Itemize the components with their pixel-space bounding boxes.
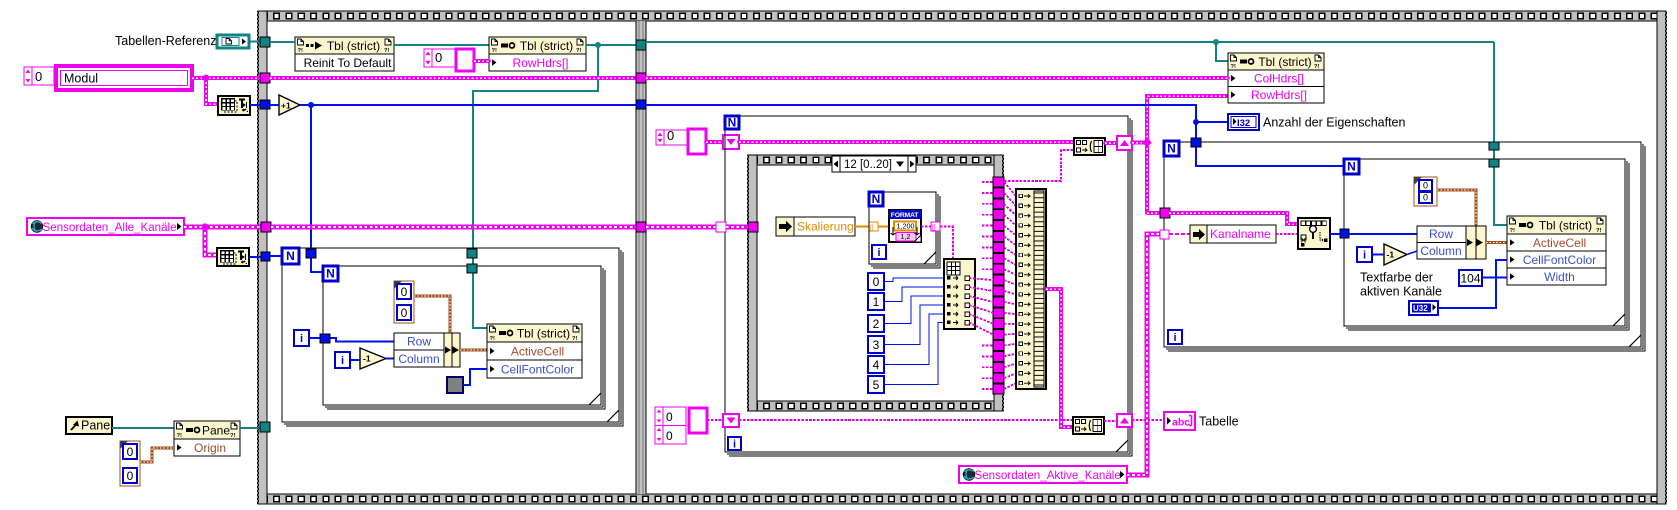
wire wavy bottom shift register across loop (739, 419, 1073, 421)
Pane reference constant (66, 417, 112, 434)
tunnel blue rows count on sequence border (261, 252, 270, 261)
wire braided branch down to subVI B (205, 227, 217, 255)
wire wavy cluster node 2 to shift register right bottom (1104, 420, 1117, 422)
tunnel pink solid on stacked sequence border (748, 222, 758, 232)
svg-text:ActiveCell: ActiveCell (1533, 236, 1586, 250)
svg-text:?!: ?! (572, 336, 578, 342)
shift register right bottom of middle loop (1117, 414, 1132, 427)
color constant U32 (1409, 301, 1438, 315)
wire beads Modul to ColHdrs (646, 76, 1228, 80)
wire brown cluster to bundle top (414, 296, 450, 333)
array to cluster node bottom (1073, 417, 1104, 434)
wire orange inside format loop (878, 225, 889, 227)
indicator I32 Anzahl der Eigenschaften (1228, 114, 1259, 130)
svg-text:0: 0 (35, 69, 42, 84)
wire beads channel to right loop tunnel (1147, 211, 1164, 215)
string array constant for shift register top (656, 128, 687, 145)
svg-text:0: 0 (873, 275, 880, 289)
property node Pane Origin (174, 421, 240, 456)
svg-text:?!: ?! (492, 48, 498, 54)
svg-text:Textfarbe der: Textfarbe der (1360, 271, 1433, 285)
svg-text:N: N (872, 192, 881, 206)
wire wavy to Tabelle indicator (1132, 419, 1164, 421)
iteration i middle loop (728, 437, 741, 451)
wire wavy format output (921, 226, 932, 228)
svg-text:i: i (1173, 332, 1176, 344)
tunnel teal on sequence border (260, 37, 270, 47)
svg-text:Tabellen-Referenz: Tabellen-Referenz (115, 34, 216, 48)
decrement -1 node (360, 348, 386, 369)
tunnel blue on inner loop border (320, 334, 330, 343)
numeric constants 0-5 (868, 273, 884, 393)
svg-text:?!: ?! (177, 433, 183, 439)
svg-text:Sensordaten_Alle_Kanäle: Sensordaten_Alle_Kanäle (43, 221, 177, 234)
svg-text:0: 0 (401, 285, 408, 299)
svg-text:Modul: Modul (64, 72, 98, 86)
svg-text:+1: +1 (281, 101, 291, 111)
tunnel blue on right inner loop border (1340, 229, 1349, 238)
svg-text:0: 0 (666, 429, 673, 443)
wire blue U32 to CellFontColor right (1438, 260, 1507, 308)
shift register left top of middle loop (723, 135, 739, 149)
svg-text:RowHdrs[]: RowHdrs[] (512, 56, 568, 70)
svg-text:U32: U32 (1413, 304, 1428, 313)
search 1D array node (1298, 218, 1330, 249)
for loop frame1 inner (323, 266, 605, 409)
svg-text:?!: ?! (1596, 228, 1602, 234)
loop count N right outer (1164, 141, 1179, 156)
subVI table row index B (217, 248, 249, 266)
iteration i frame1 outer (294, 330, 309, 346)
wire teal refnum to tunnel (249, 41, 260, 43)
wire beads shift register to cluster node across loop (739, 140, 1074, 144)
svg-text:?!: ?! (384, 48, 390, 54)
tunnel teal on right inner loop top (1489, 159, 1499, 167)
for loop frame1 outer (282, 248, 623, 426)
wire beads const to shift register (706, 140, 723, 144)
iteration i right inner (1357, 247, 1372, 262)
svg-text:i: i (877, 247, 880, 259)
empty string constant (456, 49, 474, 71)
svg-text:Row: Row (407, 335, 431, 349)
loop count N frame1 inner (323, 266, 338, 281)
tunnel blue on sequence border for +1 (260, 100, 270, 109)
wire teal Pane const to property node (112, 427, 174, 429)
svg-text:1,200: 1,200 (897, 222, 915, 231)
svg-text:Column: Column (1420, 244, 1461, 258)
svg-text:Tbl (strict): Tbl (strict) (520, 39, 573, 53)
wires wavy stub inputs on other tunnels (982, 181, 993, 183)
svg-text:?!: ?! (490, 336, 496, 342)
tunnel blue on right outer loop border (1191, 138, 1201, 147)
wire wavy first tunnel to cluster node 1 (1004, 150, 1074, 181)
loop count N format loop (869, 192, 883, 206)
svg-text:Reinit To Default: Reinit To Default (304, 56, 392, 70)
wire blue subVI A to tunnel (250, 104, 260, 106)
svg-text:Tabelle: Tabelle (1199, 415, 1239, 429)
svg-text:Row: Row (1429, 227, 1453, 241)
svg-text:N: N (326, 267, 335, 281)
wire beads vertical channel up to RowHdrs (1147, 96, 1228, 213)
svg-text:0: 0 (435, 50, 442, 65)
tunnel pink solid channel names on right loop border (1160, 208, 1170, 218)
wire blue rows count to outer N (270, 255, 282, 257)
sequence frame divider (636, 21, 646, 494)
wires wavy tunnels to build array (1004, 182, 1016, 196)
wire braided inside middle loop (726, 225, 748, 230)
svg-text:N: N (728, 116, 737, 130)
wire blue branch down to for loops N (311, 105, 323, 272)
svg-text:Anzahl der Eigenschaften: Anzahl der Eigenschaften (1263, 116, 1406, 130)
property node Tbl RowHdrs (489, 37, 586, 71)
wire teal branch to ColHdrs node (1216, 42, 1228, 61)
iteration i format loop (872, 245, 886, 259)
svg-text:Tbl (strict): Tbl (strict) (327, 39, 380, 53)
svg-text:2: 2 (873, 317, 880, 331)
svg-text:0: 0 (1423, 193, 1428, 203)
wire orange Skalierung to format loop (855, 225, 870, 227)
wire beads cluster node 1 to shift register right top (1105, 141, 1117, 145)
svg-text:?!: ?! (230, 433, 236, 439)
color box constant gray (447, 377, 463, 393)
property node Tbl ActiveCell right (1507, 216, 1606, 285)
wires wavy node outputs to tunnels (969, 278, 993, 280)
array to cluster node top (1074, 138, 1105, 155)
wire beads string const to RowHdrs (474, 59, 489, 63)
bundle by name Row Column right (1417, 226, 1486, 259)
for loop format (869, 192, 940, 268)
stacked sequence selector label 12 [0..20] (832, 156, 916, 172)
wire blue subVI B to tunnel (249, 256, 261, 258)
wire blue to Row (1349, 233, 1417, 235)
iteration i frame1 inner (335, 352, 350, 368)
svg-text:i: i (300, 333, 303, 345)
tunnel blue through outer for loop border (306, 249, 316, 258)
svg-text:Tbl (strict): Tbl (strict) (1258, 55, 1311, 69)
svg-text:Column: Column (398, 352, 439, 366)
svg-text:Width: Width (1544, 270, 1575, 284)
svg-text:-1: -1 (1387, 250, 1395, 260)
cluster constant 0,0 for Origin (120, 441, 140, 486)
svg-text:[]: [] (932, 224, 936, 231)
tunnels pink column on stacked sequence right border (993, 177, 1004, 394)
svg-text:i: i (1363, 250, 1366, 262)
wire blue search result to inner loop (1330, 233, 1344, 235)
svg-text:ActiveCell: ActiveCell (511, 344, 564, 358)
svg-text:Origin: Origin (194, 441, 226, 455)
tunnel teal Pane on sequence border (260, 422, 270, 432)
svg-text:Sensordaten_Aktive_Kanäle: Sensordaten_Aktive_Kanäle (975, 469, 1121, 482)
wire blue i to -1 right (1372, 254, 1384, 256)
svg-text:Pane: Pane (81, 419, 110, 433)
svg-text:5: 5 (873, 378, 880, 392)
wire blue color box to CellFontColor (463, 369, 487, 385)
wire wavy Kanalname to search node (1276, 233, 1298, 235)
svg-text:1: 1 (873, 295, 880, 309)
global variable Sensordaten_Aktive_Kanaele (959, 466, 1127, 483)
wire blue 104 to Width (1482, 277, 1507, 279)
stacked sequence structure (filmstrip) (747, 155, 1004, 411)
svg-text:0: 0 (127, 445, 134, 459)
svg-text:N: N (1167, 142, 1176, 156)
wire blue tunnel to +1 (270, 104, 279, 106)
wire braided 2D array from global (184, 225, 261, 230)
wire wavy to column node (940, 227, 953, 260)
wire teal tunnel to invoke node (270, 41, 295, 43)
column index node with 6 inputs (944, 259, 975, 329)
wire braided to middle loop tunnel (646, 225, 721, 230)
wire blue branch to I32 indicator (1196, 121, 1229, 123)
numeric constant 104 (1459, 270, 1482, 286)
wire Modul string array beads (192, 76, 260, 80)
wires blue constants to column node (884, 278, 944, 282)
wire blue -1 to Column (386, 358, 395, 360)
tunnel pink braided on divider (636, 222, 646, 232)
wire brown bundle to ActiveCell (460, 349, 487, 352)
format into string node (889, 210, 921, 242)
wire blue across frame 2 down to inner loop (646, 105, 1344, 166)
svg-text:0: 0 (401, 306, 408, 320)
tunnel teal on outer loop border (467, 249, 477, 258)
svg-text:I32: I32 (1237, 118, 1250, 129)
decrement -1 right (1384, 244, 1407, 265)
control refnum Tabellen-Referenz terminal (217, 35, 249, 48)
svg-text:?!: ?! (1231, 64, 1237, 70)
svg-text:RowHdrs[]: RowHdrs[] (1251, 88, 1307, 102)
svg-text:3: 3 (873, 338, 880, 352)
build array node tall (1016, 189, 1046, 389)
tunnel indexing on middle loop border (716, 222, 726, 232)
string array control Modul (24, 66, 192, 90)
tunnel string indexing on format loop right (931, 222, 940, 231)
wire teal across to divider with junction (586, 44, 636, 46)
wire beads Modul across frame 1 (270, 76, 636, 80)
tunnel teal on right outer loop top (1489, 142, 1499, 150)
svg-text:Kanalname: Kanalname (1210, 227, 1271, 241)
svg-text:104: 104 (1460, 272, 1480, 286)
svg-text:FORMAT: FORMAT (891, 212, 919, 219)
svg-text:0: 0 (1423, 181, 1428, 191)
shift register right top of middle loop (1117, 136, 1132, 150)
svg-text:-1: -1 (363, 354, 371, 364)
tunnel pink Modul on divider (636, 73, 646, 83)
loop count N frame1 outer (282, 248, 299, 264)
wire blue +1 output across frame with junction (300, 104, 636, 106)
wire brown cluster to Origin (140, 448, 174, 462)
unbundle by name Kanalname (1190, 225, 1276, 243)
wire braided global up the channel to Kanalname tunnel (1127, 234, 1164, 475)
svg-text:abc: abc (1172, 417, 1190, 429)
tunnel pink braided on sequence border (261, 222, 271, 232)
wire wavy const to bottom shift register (707, 419, 723, 421)
svg-text:1,2: 1,2 (901, 232, 911, 241)
svg-text:aktiven Kanäle: aktiven Kanäle (1360, 285, 1442, 299)
svg-text:Tbl (strict): Tbl (strict) (1539, 218, 1592, 232)
wire braided across frame 1 (271, 225, 636, 230)
svg-text:Tbl (strict): Tbl (strict) (517, 326, 570, 340)
tunnel teal on divider (636, 40, 646, 50)
wire teal across frame 2 (646, 41, 1494, 43)
tunnel indexing Kanalname on right loop border (1160, 230, 1169, 239)
subVI table row index A (218, 96, 250, 115)
wire blue -1 to Column right (1407, 251, 1417, 255)
shift register left bottom of middle loop (723, 414, 739, 427)
loop count N right inner (1344, 159, 1359, 174)
svg-text:?!: ?! (298, 48, 304, 54)
svg-text:?!: ?! (1510, 228, 1516, 234)
svg-text:?!: ?! (576, 48, 582, 54)
for loop right outer (1164, 142, 1645, 351)
wire brown bundle to ActiveCell right (1486, 241, 1507, 244)
svg-text:Pane: Pane (202, 423, 230, 437)
numeric constant 0 row index (424, 49, 455, 67)
svg-text:ColHdrs[]: ColHdrs[] (1254, 72, 1304, 86)
iteration i right outer (1168, 330, 1182, 344)
wire teal Pane node to tunnel (240, 427, 261, 429)
wire teal invoke to property node RowHdrs (394, 44, 489, 46)
svg-text:i: i (733, 439, 736, 451)
svg-text:12 [0..20]: 12 [0..20] (844, 159, 892, 171)
string indicator Tabelle (1164, 412, 1195, 430)
wire beads branch down to table index subVI (206, 78, 218, 104)
increment +1 node (279, 95, 300, 115)
wire blue i to -1 (350, 359, 360, 361)
tunnel orange indexing on format loop (869, 222, 878, 231)
2D string array constant for shift register bottom (655, 407, 707, 444)
global variable Sensordaten_Alle_Kanaele (27, 218, 184, 235)
tunnel blue on divider (636, 100, 646, 109)
wire pink dashed to Kanalname (1169, 233, 1190, 235)
wire teal branch down to ActiveCell property node (473, 45, 598, 328)
svg-text:4: 4 (873, 358, 880, 372)
property node Tbl ActiveCell frame1 (487, 324, 582, 378)
invoke node Tbl Reinit To Default (295, 37, 394, 71)
wire beads to search node (1169, 213, 1298, 224)
svg-text:CellFontColor: CellFontColor (1523, 253, 1596, 267)
wire brown cluster to bundle right (1437, 190, 1476, 226)
bundle by name Row Column frame1 (394, 333, 460, 367)
svg-text:N: N (1347, 160, 1356, 174)
svg-text:?!: ?! (1314, 64, 1320, 70)
svg-text:CellFontColor: CellFontColor (501, 362, 574, 376)
svg-text:0: 0 (666, 410, 673, 424)
wire blue i to Row (309, 338, 395, 342)
property node Tbl ColHdrs RowHdrs (1228, 53, 1324, 103)
svg-text:0: 0 (127, 469, 134, 483)
loop count N middle loop (725, 116, 739, 130)
for loop right inner (1344, 159, 1629, 330)
svg-text:i: i (341, 355, 344, 367)
cluster constant 0,0 right (1414, 177, 1437, 206)
wire teal down right side to ActiveCell node (1494, 42, 1507, 225)
cluster constant 0,0 ActiveCell frame1 (394, 281, 414, 323)
svg-text:0: 0 (667, 128, 674, 143)
for loop middle (loop2) (725, 116, 1132, 456)
svg-text:N: N (286, 249, 295, 263)
tunnel teal on inner loop border (467, 264, 477, 273)
unbundle by name Skalierung (776, 217, 855, 236)
tunnel pink Modul on sequence border (260, 73, 270, 83)
wire beads to vertical channel with junction (1132, 141, 1147, 145)
svg-text:Skalierung: Skalierung (797, 220, 854, 234)
svg-text:[]: [] (870, 224, 874, 231)
wire beads build array output down to cluster node 2 (1046, 289, 1073, 427)
